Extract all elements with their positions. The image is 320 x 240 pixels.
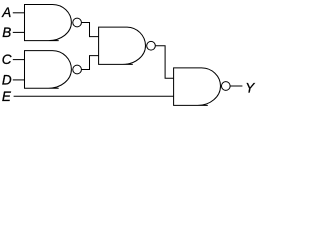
svg-text:Y: Y (245, 80, 255, 95)
svg-text:E: E (2, 89, 12, 104)
svg-text:A: A (1, 5, 11, 20)
svg-text:D: D (2, 73, 12, 88)
svg-text:B: B (2, 25, 11, 40)
svg-text:C: C (2, 52, 12, 67)
